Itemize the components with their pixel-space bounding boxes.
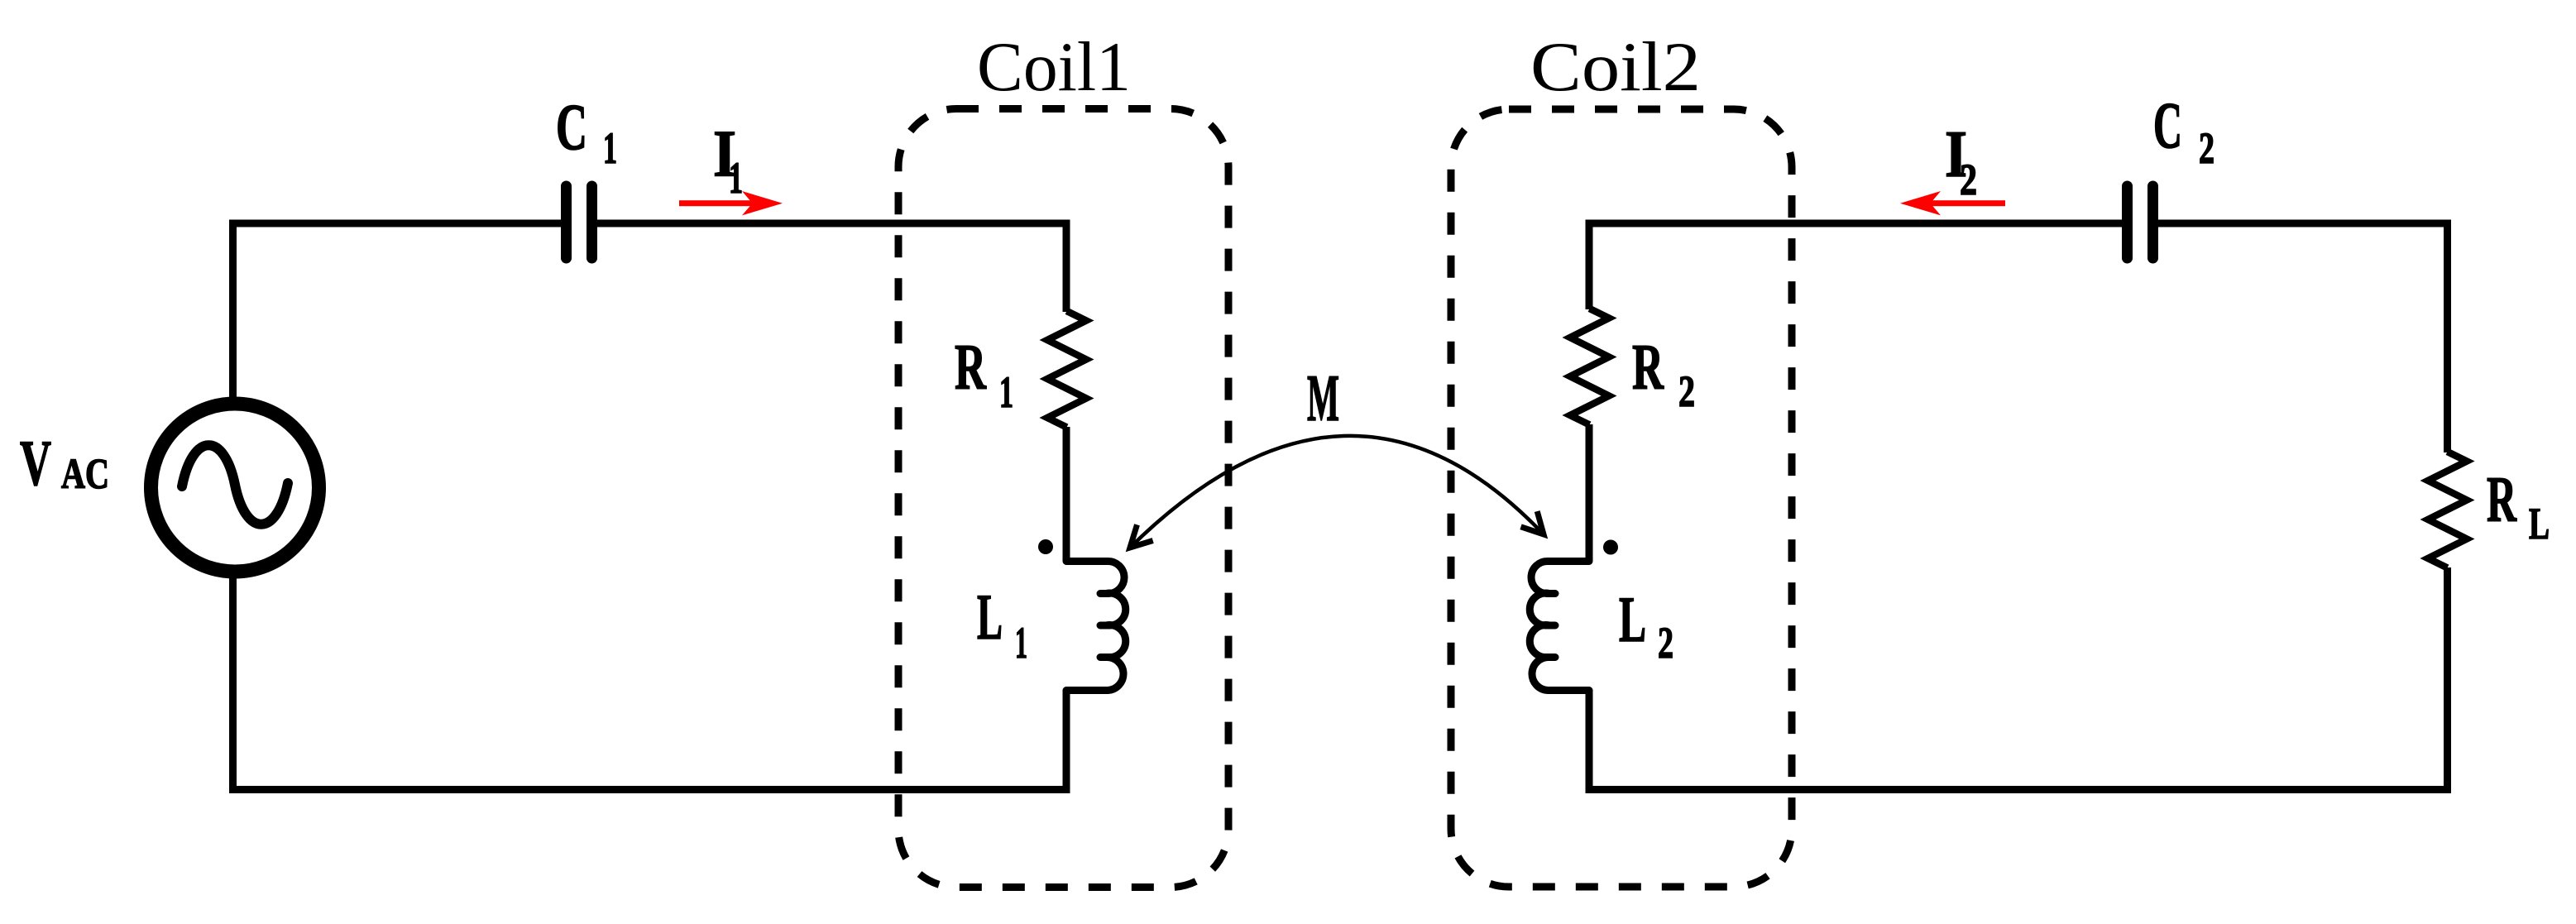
svg-text:2: 2 (1658, 618, 1673, 668)
svg-text:1: 1 (1015, 618, 1027, 668)
resistor RL (2428, 452, 2467, 568)
svg-text:R: R (955, 331, 987, 403)
inductor L1 (1066, 561, 1126, 690)
wire top C1 to Coil1 (597, 223, 1066, 312)
label L2 (1619, 583, 1673, 668)
svg-text:Coil1: Coil1 (977, 28, 1131, 106)
svg-text:1: 1 (999, 367, 1013, 417)
svg-text:2: 2 (2199, 123, 2214, 173)
label R1 (955, 331, 1013, 417)
svg-text:2: 2 (1678, 366, 1695, 416)
svg-text:C: C (556, 92, 587, 164)
label R2 (1632, 331, 1695, 416)
arrowhead M right (1521, 511, 1544, 534)
label RL (2487, 463, 2550, 548)
capacitor C1 (567, 186, 592, 258)
wire bottom right loop (1589, 567, 2448, 790)
svg-text:AC: AC (61, 451, 109, 498)
inductor L2 (1530, 561, 1589, 690)
AC source sine wave (182, 445, 288, 524)
label L1 (977, 581, 1027, 668)
svg-text:C: C (2153, 90, 2182, 162)
svg-text:1: 1 (603, 123, 617, 173)
wire R2 to L2 (1586, 424, 1593, 562)
label VAC (20, 427, 109, 499)
coil box Coil1 (898, 109, 1228, 888)
label I1 (713, 118, 743, 203)
resistor R1 (1047, 311, 1086, 428)
svg-text:2: 2 (1960, 155, 1977, 204)
svg-text:V: V (20, 427, 51, 499)
wire left-top (233, 223, 562, 405)
label C1 (556, 92, 617, 173)
wire Coil2 top to C2 (1589, 223, 2122, 309)
svg-text:R: R (2487, 463, 2517, 535)
AC source VAC circle (151, 404, 319, 572)
current arrow I1 (679, 191, 783, 215)
svg-text:Coil2: Coil2 (1530, 28, 1701, 106)
current arrow I2 (1900, 191, 2005, 215)
svg-text:M: M (1307, 361, 1339, 435)
wire R1 to L1 (1063, 427, 1070, 562)
wire C2 to right side (2158, 223, 2448, 452)
svg-text:1: 1 (729, 153, 743, 203)
arrowhead M left (1130, 524, 1153, 548)
resistor R2 (1570, 309, 1609, 425)
capacitor C2 (2128, 186, 2153, 258)
label C2 (2153, 90, 2214, 173)
phase dot L2 (1603, 540, 1618, 555)
svg-text:L: L (2529, 499, 2550, 548)
svg-text:R: R (1632, 331, 1664, 403)
svg-text:L: L (977, 581, 1003, 653)
mutual inductance arc M (1130, 436, 1544, 548)
label I2 (1945, 118, 1977, 204)
wire bottom left loop (233, 571, 1067, 790)
svg-text:L: L (1619, 583, 1646, 655)
phase dot L1 (1038, 539, 1053, 554)
coil box Coil2 (1451, 109, 1792, 887)
